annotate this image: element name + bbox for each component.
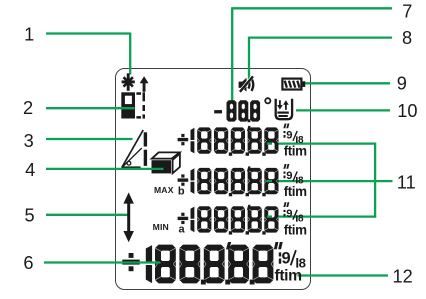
svg-text:ftim: ftim: [275, 267, 302, 284]
measurement row 2 digits: [178, 164, 308, 199]
svg-text:7: 7: [402, 2, 412, 22]
label a: [179, 224, 186, 236]
svg-text:MAX: MAX: [154, 185, 174, 195]
svg-text:9: 9: [286, 129, 292, 141]
svg-text:10: 10: [397, 101, 417, 121]
svg-text:ftim: ftim: [284, 184, 307, 199]
callout line 11 bracket: [267, 143, 393, 218]
callout line 8: [249, 37, 392, 82]
callout line 2: [46, 107, 135, 109]
svg-text:6: 6: [23, 253, 33, 273]
label MAX: [154, 185, 174, 195]
svg-text:5: 5: [25, 206, 35, 226]
label MIN: [153, 222, 169, 232]
svg-text:2: 2: [23, 98, 33, 118]
callout line 12: [298, 274, 389, 276]
angle display -88.8 with degree: [214, 98, 270, 122]
svg-text:a: a: [179, 224, 186, 236]
stake-out icon: [276, 99, 292, 119]
callout number 5: [25, 206, 35, 226]
large bottom measurement row: [122, 242, 306, 285]
callout line 10: [296, 109, 390, 111]
indirect measurement triangle icon: [122, 130, 147, 170]
LCD panel outline: [116, 69, 311, 290]
svg-text:MIN: MIN: [153, 222, 169, 232]
svg-text:ftim: ftim: [284, 222, 307, 237]
svg-text:9: 9: [282, 250, 291, 268]
callout number 9: [397, 74, 407, 94]
callout line 11 tips: [267, 144, 272, 217]
svg-text:9: 9: [286, 170, 292, 182]
svg-text:9: 9: [286, 208, 292, 220]
svg-text:b: b: [178, 186, 185, 198]
callout number 8: [402, 28, 412, 48]
callout line 5: [46, 214, 128, 216]
svg-text:12: 12: [392, 266, 412, 286]
callout number 1: [24, 25, 34, 45]
callout line 7: [232, 7, 392, 100]
svg-text:1: 1: [24, 25, 34, 45]
callout number 3: [24, 131, 34, 151]
callout number 7: [402, 2, 412, 22]
callout number 11: [397, 172, 416, 192]
laser star symbol: [122, 73, 135, 91]
volume box icon: [152, 152, 180, 173]
label b: [178, 186, 185, 198]
measuring reference icon: [121, 92, 145, 118]
callout number 12: [392, 266, 412, 286]
svg-text:9: 9: [397, 74, 407, 94]
svg-text:11: 11: [397, 172, 416, 192]
svg-text:8: 8: [402, 28, 412, 48]
callout number 6: [23, 253, 33, 273]
up arrow (laser direction): [140, 76, 149, 92]
speaker mute icon: [239, 76, 254, 92]
callout number 4: [25, 160, 35, 180]
battery icon: [282, 79, 305, 90]
svg-text:4: 4: [25, 160, 35, 180]
measurement row 3 digits: [178, 202, 308, 237]
up/down double arrow: [123, 192, 133, 242]
callout number 10: [397, 101, 417, 121]
callout line 6: [44, 261, 161, 263]
callout line 4: [46, 168, 164, 170]
callout line 3: [46, 138, 133, 140]
svg-text:3: 3: [24, 131, 34, 151]
callout line 1: [46, 33, 130, 75]
measurement row 1 digits: [178, 124, 308, 159]
callout number 2: [23, 98, 33, 118]
callout line 9: [305, 82, 390, 84]
svg-text:ftim: ftim: [284, 144, 307, 159]
